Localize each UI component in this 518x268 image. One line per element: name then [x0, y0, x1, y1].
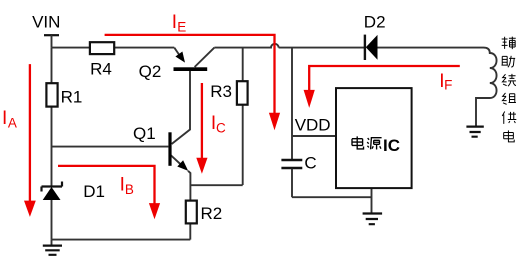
svg-text:VIN: VIN [32, 13, 60, 32]
svg-text:C: C [304, 154, 316, 173]
svg-text:E: E [177, 19, 186, 34]
svg-text:Q1: Q1 [133, 124, 156, 143]
svg-text:R4: R4 [90, 60, 112, 79]
svg-text:F: F [444, 78, 452, 93]
svg-text:Q2: Q2 [139, 62, 162, 81]
svg-text:R1: R1 [61, 87, 83, 106]
svg-text:R3: R3 [210, 82, 232, 101]
svg-text:D2: D2 [364, 13, 386, 32]
svg-text:D1: D1 [83, 182, 105, 201]
svg-text:I: I [2, 108, 7, 129]
svg-text:IC: IC [383, 136, 400, 155]
svg-text:C: C [216, 120, 226, 135]
svg-text:I: I [172, 12, 177, 33]
svg-text:B: B [125, 182, 134, 197]
svg-text:A: A [8, 115, 17, 130]
svg-text:VDD: VDD [295, 116, 331, 135]
svg-text:R2: R2 [201, 204, 223, 223]
